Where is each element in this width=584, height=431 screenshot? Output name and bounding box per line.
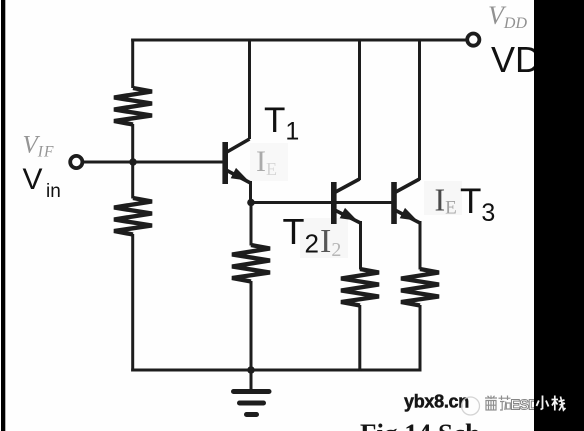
- wire R3 bottom to ground rail: [250, 281, 253, 370]
- watermark glyph xiao (小) white on black: [537, 396, 549, 410]
- wire Vin input horizontal: [82, 161, 223, 164]
- resistor R5: [401, 269, 439, 306]
- wire node A to R3 top: [250, 203, 253, 246]
- resistor R3: [232, 245, 270, 282]
- transistor T1: [225, 139, 250, 184]
- wire T2 collector vertical: [358, 39, 361, 180]
- right black border bar: [534, 0, 584, 431]
- transistor T2: [334, 179, 361, 224]
- wire R5 bottom to ground rail: [419, 305, 422, 372]
- wire R4 bottom to ground rail: [358, 305, 361, 372]
- node A junction dot (T1 emitter / base bus): [247, 199, 255, 207]
- transistor T3: [394, 179, 420, 224]
- svg-text:ybx8.cn: ybx8.cn: [404, 392, 469, 412]
- ground: [234, 392, 270, 415]
- wire top rail VDD: [131, 39, 467, 42]
- wire T3 collector vertical: [418, 39, 421, 180]
- resistor R4: [341, 269, 379, 306]
- watermark glyph qie (茄): [499, 396, 511, 411]
- wire base bus from node A to T2 and T3: [251, 201, 392, 204]
- node ground junction dot: [247, 366, 255, 374]
- watermark glyph fan (番): [485, 396, 497, 411]
- wire T3 emitter to R5: [419, 221, 422, 270]
- smudge patch near T1: [250, 143, 288, 181]
- resistor R2: [114, 198, 152, 235]
- svg-text:Fig.14 Sch: Fig.14 Sch: [360, 419, 480, 431]
- smudge patch near T2: [300, 218, 348, 258]
- resistor R1: [114, 88, 152, 125]
- smudge patch near T3: [424, 181, 462, 215]
- left black border bar: [1, 0, 5, 431]
- wire left rail between R1 and R2: [131, 124, 134, 199]
- wire left rail upper segment: [131, 39, 134, 89]
- wire T2 emitter to R4: [359, 221, 362, 270]
- wire ground stem: [250, 370, 253, 389]
- wire left rail lower segment: [131, 234, 134, 372]
- watermark glyph zhan (栈) white on black: [552, 396, 566, 411]
- wire T1 collector vertical: [248, 39, 251, 139]
- terminal VDD: [467, 34, 479, 46]
- wire T1 emitter vertical to node A: [249, 181, 252, 204]
- wire bottom ground rail: [131, 369, 420, 372]
- terminal Vin: [70, 156, 82, 168]
- watermark logo circle: [462, 397, 480, 415]
- node Vin junction dot: [129, 158, 137, 166]
